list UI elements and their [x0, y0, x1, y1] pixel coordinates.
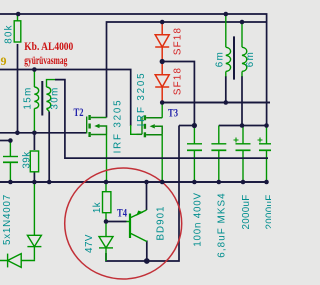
svg-text:6m: 6m	[245, 51, 256, 67]
svg-text:30m: 30m	[50, 86, 61, 109]
svg-text:gyürüvasmag: gyürüvasmag	[24, 55, 67, 67]
svg-text:15m: 15m	[23, 86, 34, 109]
svg-text:1k: 1k	[92, 202, 103, 213]
svg-text:Kb. AL4000: Kb. AL4000	[24, 41, 73, 53]
svg-text:BD901: BD901	[156, 206, 167, 241]
svg-text:IRF 3205: IRF 3205	[113, 99, 124, 154]
svg-text:SF18: SF18	[173, 67, 184, 95]
svg-text:2000uF: 2000uF	[265, 194, 272, 229]
svg-text:80k: 80k	[4, 24, 15, 43]
svg-text:SF18: SF18	[173, 27, 184, 55]
svg-text:T4: T4	[117, 206, 127, 220]
svg-text:39k: 39k	[22, 151, 33, 168]
svg-text:9: 9	[1, 54, 7, 68]
svg-text:100n 400V: 100n 400V	[193, 192, 204, 247]
svg-text:6m: 6m	[215, 51, 226, 67]
svg-text:47V: 47V	[84, 234, 95, 253]
svg-text:T3: T3	[168, 106, 178, 120]
svg-text:IRF 3205: IRF 3205	[136, 72, 147, 127]
svg-text:6,8uF MKS4: 6,8uF MKS4	[217, 192, 228, 257]
svg-text:T2: T2	[74, 105, 84, 119]
svg-text:2000uF: 2000uF	[241, 194, 252, 229]
svg-text:5x1N4007: 5x1N4007	[2, 194, 13, 245]
